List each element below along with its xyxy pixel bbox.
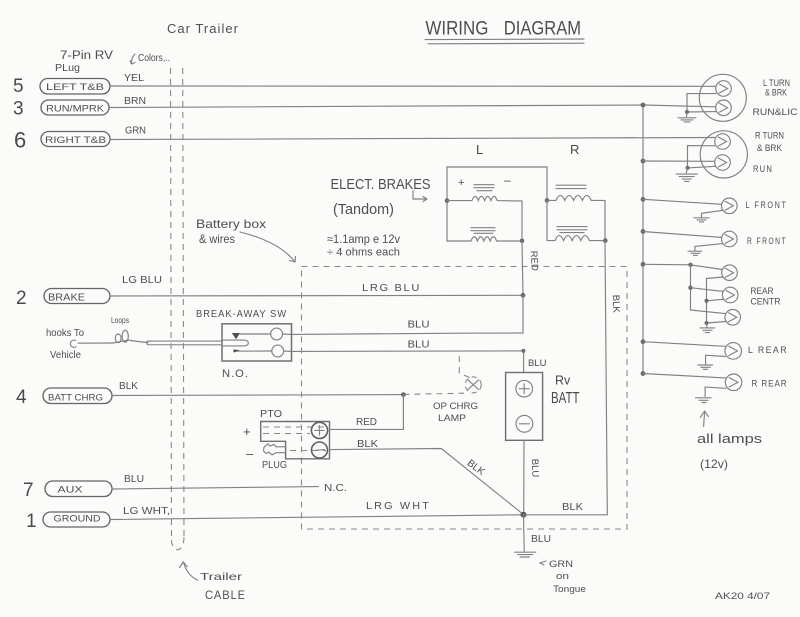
svg-text:BLU: BLU: [408, 340, 430, 351]
left brake assembly: [445, 167, 547, 243]
lamp L TURN & BRK / RUN & LIC (dual filament): [641, 74, 747, 122]
svg-text:GRN: GRN: [125, 126, 146, 137]
svg-text:LRG BLU: LRG BLU: [362, 283, 421, 294]
connector pin 6 RIGHT T&B: [14, 128, 110, 153]
wire BLU switch top to brake junction vertical: [283, 320, 524, 335]
wire BRN pin3 to lamp bus: [109, 96, 716, 108]
PTO plug: [243, 409, 330, 471]
svg-text:OP CHRG: OP CHRG: [433, 401, 478, 412]
svg-text:BLK: BLK: [357, 439, 378, 450]
wire RED from brakes down to brake line: [521, 241, 540, 333]
svg-text:N.O.: N.O.: [222, 368, 249, 380]
label L brake: [476, 142, 483, 157]
trailer cable dashed boundary: [171, 68, 185, 550]
svg-text:BLU: BLU: [408, 320, 430, 331]
lamp bus vertical: [642, 105, 644, 374]
svg-text:REAR: REAR: [751, 286, 774, 296]
lamp R FRONT: [641, 229, 787, 255]
svg-text:7-Pin RV: 7-Pin RV: [60, 50, 113, 62]
svg-text:BLU: BLU: [531, 534, 551, 545]
svg-text:BREAK-AWAY SW: BREAK-AWAY SW: [196, 309, 287, 320]
label R TURN & BRK: [755, 131, 784, 154]
svg-text:L REAR: L REAR: [748, 345, 788, 355]
svg-text:Car Trailer: Car Trailer: [167, 22, 239, 36]
lamp L REAR: [641, 339, 788, 369]
signature AK20 4/07: [715, 591, 770, 602]
label Colors with down arrow: [130, 53, 170, 64]
label Car Trailer: [167, 22, 239, 36]
svg-text:& wires: & wires: [199, 232, 235, 246]
svg-text:GRN: GRN: [549, 559, 573, 569]
wire RED pto plus to junction: [330, 395, 404, 430]
svg-text:7: 7: [23, 480, 34, 501]
svg-text:& BRK: & BRK: [765, 88, 787, 98]
svg-text:Trailer: Trailer: [200, 571, 243, 583]
wire BLK from right brake down to ground junction line: [605, 241, 622, 515]
wire BLU battery minus down to ground junction: [524, 440, 541, 515]
svg-text:YEL: YEL: [124, 73, 144, 84]
label R brake: [570, 142, 579, 157]
svg-text:RED: RED: [528, 250, 540, 271]
RV battery: [506, 373, 580, 441]
wire BLU switch bottom to battery: [284, 340, 547, 373]
wire LG BLU / LRG BLU brake line: [110, 275, 523, 296]
svg-text:+: +: [458, 177, 464, 189]
connector pin 3 RUN/MPRK: [13, 99, 109, 120]
svg-text:& BRK: & BRK: [757, 143, 782, 153]
svg-text:L TURN: L TURN: [763, 78, 790, 88]
svg-text:Tongue: Tongue: [553, 584, 586, 595]
svg-text:÷ 4 ohms each: ÷ 4 ohms each: [327, 247, 400, 259]
right brake assembly: [545, 185, 608, 243]
svg-text:L FRONT: L FRONT: [746, 200, 788, 210]
svg-text:BRAKE: BRAKE: [48, 293, 85, 304]
wire YEL pin5 to L TURN lamp: [110, 73, 716, 86]
svg-text:BLU: BLU: [124, 474, 144, 485]
label RUN: [753, 164, 773, 175]
svg-text:PLUG: PLUG: [262, 460, 287, 471]
label Trailer CABLE with arrow: [180, 562, 246, 602]
svg-text:RED: RED: [356, 417, 377, 428]
svg-text:AK20 4/07: AK20 4/07: [715, 591, 770, 602]
lamp L FRONT: [641, 197, 788, 222]
lamp R TURN & BRK / RUN (dual filament): [641, 131, 748, 182]
svg-text:6: 6: [14, 128, 26, 153]
label L TURN & BRK: [763, 78, 790, 98]
svg-text:RUN&LIC: RUN&LIC: [753, 107, 799, 117]
svg-text:LRG WHT: LRG WHT: [366, 501, 431, 512]
svg-text:GROUND: GROUND: [54, 514, 101, 525]
svg-text:all lamps: all lamps: [697, 431, 763, 446]
svg-text:Rv: Rv: [555, 374, 571, 388]
label Battery box & wires with curved arrow: [196, 217, 296, 262]
svg-text:+: +: [243, 424, 251, 439]
svg-text:R FRONT: R FRONT: [747, 236, 787, 246]
svg-text:CENTR: CENTR: [751, 297, 781, 307]
svg-text:ELECT. BRAKES: ELECT. BRAKES: [331, 176, 431, 193]
svg-text:(Tandom): (Tandom): [333, 201, 394, 218]
connector pin 2 BRAKE: [16, 288, 110, 309]
label all lamps 12v with up arrow: [697, 411, 763, 471]
label ELECT. BRAKES (Tandom): [331, 176, 431, 218]
svg-text:BLK: BLK: [562, 502, 583, 513]
breakaway lanyard hook and loops: [46, 315, 222, 361]
connector pin 4 BATT CHRG: [16, 387, 112, 408]
svg-text:BATT CHRG: BATT CHRG: [48, 393, 103, 404]
svg-text:5: 5: [13, 76, 24, 97]
wire BLU aux to N.C.: [112, 474, 347, 494]
svg-text:(12v): (12v): [700, 457, 728, 471]
svg-text:BRN: BRN: [124, 96, 146, 107]
label brake current note: [327, 232, 400, 259]
label GRN on Tongue: [540, 559, 586, 595]
label 7-Pin RV Plug: [55, 50, 113, 74]
svg-text:Vehicle: Vehicle: [50, 350, 81, 361]
svg-text:N.C.: N.C.: [324, 483, 347, 494]
svg-text:R TURN: R TURN: [755, 131, 784, 141]
svg-text:BLK: BLK: [610, 295, 622, 314]
label RUN & LIC: [753, 107, 799, 117]
svg-text:BLK: BLK: [119, 381, 138, 392]
svg-text:on: on: [556, 571, 569, 581]
svg-text:R: R: [570, 142, 579, 157]
svg-text:1: 1: [26, 511, 37, 532]
svg-text:3: 3: [13, 99, 24, 120]
wire LG WHT / LRG WHT ground line: [110, 501, 524, 520]
svg-text:DIAGRAM: DIAGRAM: [504, 19, 581, 40]
svg-text:Battery box: Battery box: [196, 217, 266, 231]
svg-text:RIGHT T&B: RIGHT T&B: [45, 135, 106, 146]
svg-text:LAMP: LAMP: [438, 413, 466, 424]
break-away switch: [196, 309, 292, 380]
svg-text:PTO: PTO: [260, 409, 282, 420]
wire BLK junction to right riser: [524, 502, 608, 515]
wire BLK batt-chrg to junction: [112, 381, 403, 396]
op chrg lamp (dashed): [403, 352, 481, 424]
svg-text:Loops: Loops: [111, 315, 129, 325]
svg-text:BLU: BLU: [528, 358, 547, 369]
svg-text:RUN: RUN: [753, 164, 773, 175]
svg-text:2: 2: [16, 288, 27, 309]
svg-text:LG WHT,: LG WHT,: [123, 506, 170, 517]
svg-text:LG BLU: LG BLU: [122, 275, 162, 286]
svg-text:CABLE: CABLE: [205, 590, 246, 602]
svg-text:hooks To: hooks To: [46, 328, 84, 339]
battery box dashed outline: [302, 267, 628, 530]
svg-text:–: –: [504, 173, 511, 187]
svg-text:WIRING: WIRING: [425, 19, 488, 40]
svg-text:–: –: [246, 446, 254, 461]
connector pin 5 LEFT T&B: [13, 76, 110, 97]
svg-text:BATT: BATT: [551, 390, 580, 407]
svg-text:BLU: BLU: [529, 459, 541, 478]
svg-text:PLug: PLug: [55, 62, 80, 74]
svg-text:L: L: [476, 142, 483, 157]
junction batt-chrg / red / op-lamp: [401, 392, 406, 397]
svg-text:4: 4: [16, 387, 27, 408]
wire BLK pto minus diagonal to ground junction: [330, 439, 524, 515]
svg-text:LEFT T&B: LEFT T&B: [46, 82, 104, 93]
wire GRN pin6 to R TURN lamp: [110, 126, 715, 140]
rear centre lamp cluster: [641, 262, 781, 333]
svg-text:RUN/MPRK: RUN/MPRK: [46, 104, 105, 115]
title WIRING DIAGRAM: [425, 19, 584, 44]
lamp R REAR: [641, 371, 788, 402]
svg-text:Colors,..: Colors,..: [138, 53, 170, 64]
connector pin 7 AUX: [23, 480, 112, 501]
connector pin 1 GROUND: [26, 511, 110, 532]
svg-text:R REAR: R REAR: [752, 379, 788, 389]
chassis ground under junction: [515, 515, 552, 557]
ground junction node: [521, 512, 527, 518]
svg-text:AUX: AUX: [58, 485, 84, 496]
svg-text:≈1.1amp e 12v: ≈1.1amp e 12v: [327, 232, 400, 246]
